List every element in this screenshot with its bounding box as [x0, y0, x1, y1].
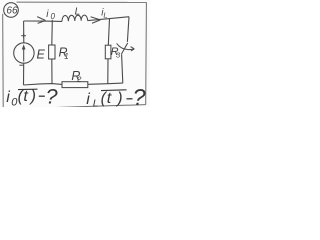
svg-text:2: 2 — [76, 74, 82, 83]
switch blade — [121, 43, 127, 54]
wire: top wire right segment (coil to switch corner) — [88, 17, 129, 21]
resistor R1 — [49, 45, 55, 59]
minus sign — [19, 64, 23, 66]
question text i0(t)-? — [6, 88, 36, 108]
label i0 — [46, 9, 55, 21]
wire: top wire left segment (node a to coil) — [24, 20, 62, 22]
svg-text:): ) — [29, 88, 36, 105]
EMF source E — [14, 43, 34, 63]
minus left — [39, 95, 45, 97]
question text iL(t)-? — [86, 90, 122, 110]
svg-text:?: ? — [46, 84, 58, 107]
resistor R3 — [105, 45, 111, 59]
svg-text:E: E — [37, 47, 46, 61]
wire: R3 branch upper — [108, 19, 109, 46]
label iL — [101, 8, 107, 20]
t overbar left — [18, 88, 38, 90]
t overbar right — [101, 89, 127, 92]
current arrow iL — [91, 17, 101, 24]
svg-text:t: t — [23, 88, 28, 105]
svg-text:66: 66 — [6, 5, 18, 16]
wire: R1 branch upper — [51, 20, 54, 45]
wire: bottom wire right segment — [88, 83, 123, 84]
frame (no label: decorative) — [3, 2, 147, 108]
wire: R1 branch lower — [51, 59, 53, 84]
svg-text:L: L — [93, 98, 99, 107]
label R3 — [111, 46, 121, 59]
svg-text:): ) — [115, 90, 122, 107]
resistor R2 — [62, 82, 88, 88]
wire: left branch upper (top wire to source) — [23, 21, 25, 43]
switch opening arrow — [117, 43, 135, 51]
wire: R3 branch lower — [107, 59, 109, 84]
wire: switch top stub — [127, 17, 129, 42]
svg-text:?: ? — [133, 84, 146, 107]
svg-text:L: L — [103, 10, 107, 19]
wire: switch bottom stub — [122, 54, 123, 83]
inductor L — [62, 15, 88, 21]
label R2 — [71, 69, 82, 83]
svg-text:1: 1 — [64, 52, 68, 61]
svg-text:i: i — [86, 91, 90, 107]
svg-text:t: t — [107, 90, 112, 107]
minus right — [127, 98, 133, 100]
problem number badge 66 — [4, 3, 19, 18]
svg-text:i: i — [6, 89, 10, 106]
wire: bottom wire left segment — [24, 84, 63, 85]
label R1 — [59, 46, 69, 61]
plus sign — [21, 33, 26, 38]
svg-text:L: L — [75, 7, 81, 18]
svg-text:0: 0 — [51, 12, 56, 21]
current arrow i0 — [37, 17, 45, 24]
wire: left branch lower (source to bottom wire) — [23, 63, 25, 85]
